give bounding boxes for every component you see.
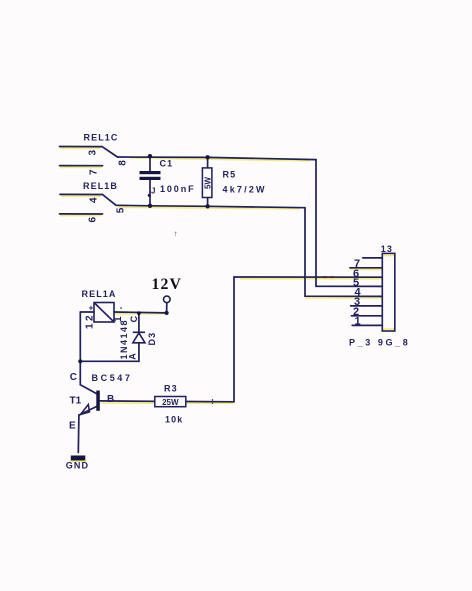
svg-text:1: 1: [355, 316, 361, 328]
svg-text:+: +: [89, 303, 94, 313]
connector box: [382, 253, 395, 331]
connector pin 1 stub: [352, 324, 382, 326]
artifact dashes on pin6 wire: [323, 276, 327, 278]
connector pin 3 stub: [351, 305, 383, 307]
svg-text:B: B: [107, 394, 114, 405]
svg-text:J: J: [151, 187, 155, 196]
svg-text:6: 6: [88, 217, 99, 223]
svg-text:↑: ↑: [174, 229, 178, 238]
relay coil REL1A: [94, 303, 114, 323]
svg-text:4k7/2W: 4k7/2W: [223, 185, 267, 195]
svg-text:4: 4: [89, 197, 100, 203]
wire REL1C pin7 stub: [60, 165, 103, 167]
svg-text:R3: R3: [164, 384, 178, 394]
wire diode top lead: [138, 313, 140, 332]
wire coil left down to collector: [79, 312, 81, 385]
connector pin 7 stub: [350, 267, 382, 269]
svg-text:25W: 25W: [162, 398, 179, 407]
transistor T1 emitter lead: [79, 406, 97, 415]
wire coil supply: [114, 311, 167, 314]
wire R3 right to riser: [186, 277, 382, 402]
diode D3: [133, 332, 145, 343]
svg-text:REL1A: REL1A: [82, 289, 117, 299]
12V terminal circle: [164, 296, 171, 303]
wire REL1B pin6 stub: [60, 213, 103, 215]
capacitor C1 leads: [149, 156, 151, 171]
svg-text:3: 3: [88, 150, 99, 156]
capacitor C1 plates: [140, 171, 161, 180]
connector pin 13 stub: [363, 257, 383, 259]
svg-text:1N4148: 1N4148: [119, 319, 129, 360]
svg-text:-: -: [115, 307, 125, 310]
transistor T1 collector lead: [80, 385, 96, 394]
wire 12V terminal stem: [166, 303, 168, 313]
svg-text:GND: GND: [66, 461, 89, 471]
transistor T1 base wire: [100, 400, 155, 402]
relay contact REL1C arm: [102, 147, 118, 157]
svg-text:D3: D3: [147, 332, 157, 346]
yellow scan fringes: [60, 148, 395, 461]
resistor R5 leads: [207, 157, 209, 168]
svg-text:C: C: [70, 372, 77, 383]
svg-text:REL1C: REL1C: [84, 133, 119, 143]
svg-text:100nF: 100nF: [160, 184, 196, 194]
svg-text:R5: R5: [223, 169, 237, 179]
resistor R5 body: [202, 168, 212, 198]
svg-text:E: E: [69, 421, 76, 432]
junction dots: [78, 154, 210, 363]
svg-text:12: 12: [85, 313, 96, 329]
artifact tick on base wire: [212, 399, 214, 404]
svg-text:13: 13: [381, 244, 393, 254]
wire coil left pin: [80, 311, 94, 313]
ground symbol: [71, 456, 86, 461]
wire REL1C pin3 stub: [60, 146, 103, 148]
wire diode return: [80, 360, 139, 362]
svg-text:C: C: [129, 315, 139, 322]
wire rail B (pin5 to bend): [116, 205, 305, 207]
svg-text:5: 5: [116, 207, 127, 213]
connector pin 2 stub: [351, 315, 382, 317]
svg-text:C1: C1: [160, 159, 174, 169]
svg-text:A: A: [128, 353, 138, 360]
wire diode bottom lead: [138, 343, 140, 362]
transistor T1 bar: [96, 391, 100, 411]
wire rail A (pin8 to bend): [118, 157, 317, 160]
transistor T1 emitter arrow: [81, 405, 90, 415]
relay contact REL1B arm: [103, 195, 117, 206]
resistor R3 body: [155, 397, 186, 407]
svg-text:8: 8: [117, 160, 128, 166]
svg-text:REL1B: REL1B: [83, 181, 118, 191]
wire rail B vertical down to pin4: [305, 208, 382, 297]
svg-text:P_3 9G_8: P_3 9G_8: [349, 338, 410, 348]
svg-text:BC547: BC547: [92, 373, 133, 383]
wire rail A vertical down to pin5: [316, 160, 382, 287]
wire REL1B pin4 stub: [60, 193, 103, 195]
svg-text:5W: 5W: [204, 177, 213, 189]
svg-text:12V: 12V: [152, 276, 183, 293]
svg-text:T1: T1: [70, 396, 82, 407]
svg-text:10k: 10k: [165, 414, 183, 424]
wire emitter to ground: [77, 415, 80, 453]
svg-text:7: 7: [89, 169, 100, 175]
